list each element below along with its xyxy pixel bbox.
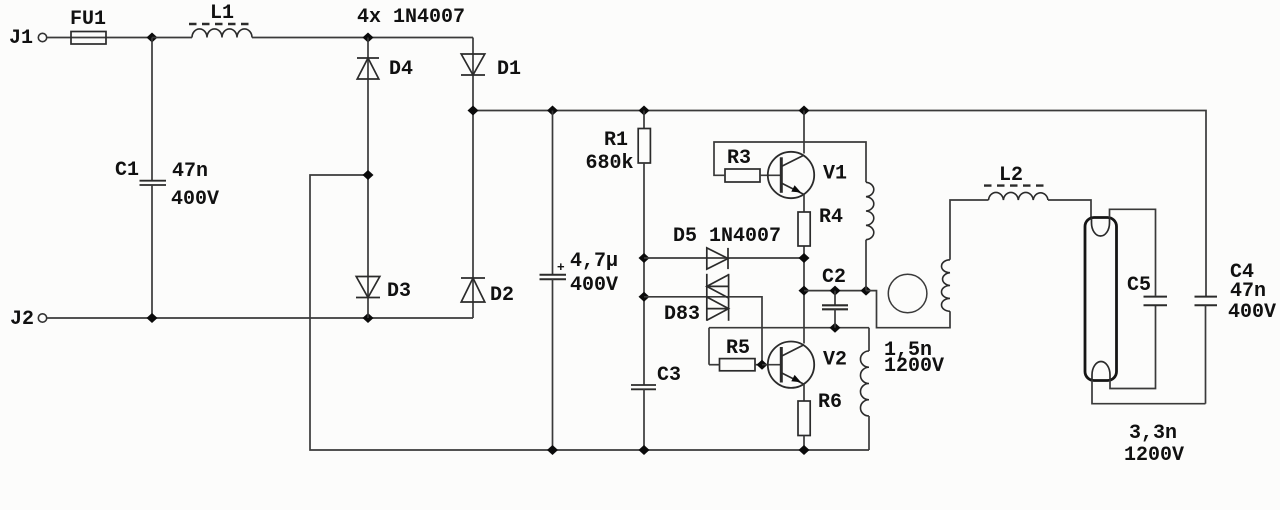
diode D1 bbox=[461, 54, 521, 81]
lamp top filament bbox=[1092, 218, 1110, 237]
junction rail/R1 bbox=[639, 106, 650, 116]
wire row1 (half-bridge midpoint) bbox=[804, 290, 866, 292]
svg-text:V1: V1 bbox=[823, 163, 847, 186]
wire L2 to lamp bbox=[1048, 200, 1091, 217]
svg-text:1200V: 1200V bbox=[884, 355, 944, 378]
svg-text:1200V: 1200V bbox=[1124, 444, 1184, 467]
svg-text:C3: C3 bbox=[657, 364, 681, 387]
svg-text:3,3n: 3,3n bbox=[1129, 422, 1177, 445]
diode D5 bbox=[673, 225, 781, 269]
junction R4/D5 bbox=[799, 253, 810, 263]
svg-text:+: + bbox=[557, 259, 565, 274]
resistor R1 bbox=[586, 111, 651, 176]
wire V1 collector bbox=[803, 111, 805, 154]
inductor L2 bbox=[984, 164, 1048, 200]
svg-text:R5: R5 bbox=[726, 337, 750, 360]
svg-text:47n: 47n bbox=[1230, 280, 1266, 303]
DC+ rail bbox=[473, 111, 1206, 297]
junction row1 left bbox=[799, 286, 810, 296]
junction row1/C2 bbox=[830, 286, 841, 296]
junction R1 column / D5 bbox=[639, 253, 650, 263]
svg-text:400V: 400V bbox=[570, 274, 618, 297]
junction at C1 top bbox=[147, 33, 158, 43]
bottom rail bbox=[310, 175, 869, 450]
wire row2 to winding W3 bbox=[868, 328, 870, 351]
svg-text:400V: 400V bbox=[1228, 301, 1276, 324]
node J2 bbox=[10, 308, 47, 331]
wire D83 row bbox=[644, 296, 729, 298]
wire path to winding W2 bbox=[866, 291, 950, 328]
diode D2 bbox=[461, 278, 514, 307]
svg-text:680k: 680k bbox=[586, 152, 634, 175]
lamp tube bbox=[1085, 218, 1117, 381]
svg-text:D1: D1 bbox=[497, 58, 521, 81]
svg-text:L1: L1 bbox=[210, 2, 234, 25]
wire D5 row bbox=[644, 257, 804, 259]
wire lamp bottom-right pin to C5 bbox=[1110, 306, 1156, 389]
svg-text:C1: C1 bbox=[115, 159, 139, 182]
junction rail/elko bbox=[547, 445, 558, 455]
svg-text:D4: D4 bbox=[389, 58, 413, 81]
wire W3 bottom to rail bbox=[868, 416, 870, 450]
wire L1 to top-right corner bbox=[152, 37, 192, 39]
capacitor C3 bbox=[631, 364, 681, 450]
svg-text:400V: 400V bbox=[171, 188, 219, 211]
wire V1 emitter bbox=[803, 195, 805, 213]
diac D83 bbox=[664, 274, 729, 326]
capacitor C5 bbox=[1127, 274, 1167, 305]
wire V2 emitter bbox=[803, 384, 805, 401]
junction J2/D3 bbox=[363, 313, 374, 323]
svg-text:D3: D3 bbox=[387, 280, 411, 303]
svg-text:R6: R6 bbox=[818, 391, 842, 414]
wire V2 collector column bbox=[803, 246, 805, 344]
svg-text:R1: R1 bbox=[604, 129, 628, 152]
junction row1/winding1 bbox=[861, 286, 872, 296]
svg-text:C5: C5 bbox=[1127, 274, 1151, 297]
resistor R3 bbox=[714, 142, 866, 182]
wire row2 (R5 loop / C2 bottom) bbox=[709, 327, 869, 329]
toroid core bbox=[888, 274, 927, 313]
junction rail/D1 bbox=[468, 106, 479, 116]
wire W2 top to L2 bbox=[950, 200, 989, 260]
svg-text:4,7µ: 4,7µ bbox=[570, 250, 618, 273]
resistor R5 bbox=[709, 328, 762, 371]
junction rail/R6 bbox=[799, 445, 810, 455]
winding W1 (base drive V1) bbox=[866, 182, 874, 239]
junction at D4 top bbox=[363, 33, 374, 43]
svg-text:L2: L2 bbox=[999, 164, 1023, 187]
diode D3 bbox=[356, 277, 411, 304]
svg-text:R3: R3 bbox=[727, 147, 751, 170]
junction V2 base bbox=[757, 360, 768, 370]
svg-text:J2: J2 bbox=[10, 308, 34, 331]
transistor V2 bbox=[768, 342, 847, 388]
capacitor C1 bbox=[115, 38, 219, 319]
svg-text:FU1: FU1 bbox=[70, 8, 106, 31]
junction row2/C2 bbox=[830, 323, 841, 333]
label 1,5n 1200V bbox=[884, 339, 944, 378]
junction rail/C-elko bbox=[547, 106, 558, 116]
junction rail/V1 bbox=[799, 106, 810, 116]
svg-text:J1: J1 bbox=[9, 27, 33, 50]
node J1 bbox=[9, 27, 47, 50]
label 3,3n 1200V bbox=[1124, 422, 1184, 467]
winding W3 (feedback) bbox=[860, 351, 869, 416]
svg-text:D2: D2 bbox=[490, 284, 514, 307]
wire R1 to C3 bbox=[643, 163, 645, 385]
transistor V1 bbox=[768, 152, 847, 198]
wire diac to V2 base column bbox=[729, 297, 762, 365]
svg-text:C2: C2 bbox=[822, 266, 846, 289]
diode D4 bbox=[357, 58, 413, 81]
wire D1-D2 column bbox=[472, 38, 474, 319]
wire lamp bottom-left pin bbox=[1092, 381, 1206, 404]
svg-text:R4: R4 bbox=[819, 206, 843, 229]
lamp bottom filament bbox=[1092, 362, 1110, 381]
junction rail/C3 bbox=[639, 445, 650, 455]
svg-text:47n: 47n bbox=[172, 160, 208, 183]
wire V2 base bbox=[762, 364, 781, 366]
resistor R6 bbox=[798, 391, 842, 450]
fuse FU1 bbox=[70, 8, 106, 44]
junction DC- / D4-D3 bbox=[363, 170, 374, 180]
junction R1 column / D83 bbox=[639, 292, 650, 302]
wire J2 rail bbox=[47, 317, 473, 319]
svg-text:4x 1N4007: 4x 1N4007 bbox=[357, 6, 465, 29]
svg-text:D83: D83 bbox=[664, 303, 700, 326]
wire J1 to fuse bbox=[47, 37, 152, 39]
inductor L1 bbox=[189, 2, 252, 38]
wire D4-D3 column bbox=[367, 38, 369, 319]
wire W1 bottom to row1 bbox=[865, 240, 867, 291]
electrolytic capacitor 4,7u bbox=[540, 111, 619, 451]
capacitor C2 bbox=[822, 266, 848, 328]
svg-text:V2: V2 bbox=[823, 349, 847, 372]
winding W2 (lamp primary) bbox=[942, 260, 951, 312]
junction J2/C1 bbox=[147, 313, 158, 323]
svg-text:D5 1N4007: D5 1N4007 bbox=[673, 225, 781, 248]
capacitor C4 bbox=[1195, 261, 1277, 404]
resistor R4 bbox=[798, 206, 843, 246]
wire lamp top-right pin bbox=[1110, 209, 1156, 295]
